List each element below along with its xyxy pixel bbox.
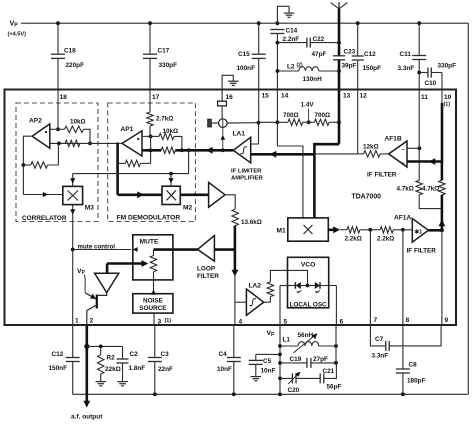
svg-text:AMPLIFIER: AMPLIFIER xyxy=(231,176,263,182)
junction IF line M2-branch xyxy=(187,148,191,152)
varicap diode right xyxy=(315,282,320,289)
junction rail-C14 xyxy=(276,21,280,25)
svg-text:mute control: mute control xyxy=(78,244,116,251)
capacitor C8 180pF at pin 8 xyxy=(396,368,410,370)
svg-text:220pF: 220pF xyxy=(66,62,85,69)
junction antenna-C22 xyxy=(337,41,341,45)
svg-text:4.7kΩ: 4.7kΩ xyxy=(397,186,414,193)
wire AP2 top input xyxy=(50,128,58,130)
svg-text:C3: C3 xyxy=(161,351,170,358)
wire 13.6k down to loop node (thick) xyxy=(234,226,237,250)
capacitor C23 39pF series antenna xyxy=(333,55,345,57)
wire pin 7 external xyxy=(370,325,385,346)
svg-text:C23: C23 xyxy=(344,49,356,56)
svg-text:16: 16 xyxy=(226,94,234,101)
amplifier LA2 VCO buffer xyxy=(246,289,263,315)
junction feedback crosses IF line xyxy=(149,148,153,152)
svg-text:(1): (1) xyxy=(165,318,172,324)
junction IF line 10k corner xyxy=(180,148,184,152)
resistor R2 22k xyxy=(100,346,102,354)
wire M3 output down to mute-control node xyxy=(72,205,74,250)
svg-text:AP1: AP1 xyxy=(121,126,134,133)
svg-text:2.2kΩ: 2.2kΩ xyxy=(377,236,394,243)
svg-text:15: 15 xyxy=(262,93,270,100)
svg-text:100nF: 100nF xyxy=(237,65,256,72)
svg-text:10nF: 10nF xyxy=(261,368,276,375)
resistor 10k AP2 feedback upper xyxy=(58,128,65,130)
resistor AP2 lower xyxy=(65,140,80,146)
capacitor C20 variable xyxy=(280,377,292,379)
svg-text:6: 6 xyxy=(340,319,344,326)
svg-text:C2: C2 xyxy=(130,351,139,358)
wire pin 2 af output (thick) xyxy=(86,325,89,403)
resistor 700 ohm left xyxy=(259,121,289,123)
wire R2/C2 branch xyxy=(87,345,123,347)
dashed box CORRELATOR xyxy=(16,103,98,222)
svg-text:1: 1 xyxy=(75,318,79,325)
wire mixer top feed M3-M2 xyxy=(73,150,189,173)
svg-text:13.6kΩ: 13.6kΩ xyxy=(241,219,262,226)
svg-text:C20: C20 xyxy=(288,387,300,394)
wire noise source to pin 3 xyxy=(153,313,155,325)
amplifier LA1 IF limiter xyxy=(233,137,250,163)
wire pin18 into AP2 node xyxy=(57,89,59,129)
wire current source into IF line xyxy=(222,127,224,150)
wire M2 left input (thick) xyxy=(118,194,162,197)
resistor 4.7k left xyxy=(416,180,422,195)
svg-text:C11: C11 xyxy=(400,51,412,58)
svg-text:FILTER: FILTER xyxy=(197,273,219,280)
current source circle xyxy=(219,119,228,128)
svg-text:1.8nF: 1.8nF xyxy=(129,365,146,372)
junction mute control at M3 line xyxy=(71,248,75,252)
svg-text:MUTE: MUTE xyxy=(140,239,159,246)
wire AP2 output to feedback node xyxy=(23,136,32,165)
inductor L2 130nH xyxy=(277,70,298,72)
svg-text:C4: C4 xyxy=(219,351,228,358)
svg-text:R2: R2 xyxy=(107,355,116,362)
svg-text:4.7kΩ: 4.7kΩ xyxy=(422,186,439,193)
junction current source-IF line xyxy=(221,148,225,152)
svg-text:3.3nF: 3.3nF xyxy=(372,353,389,360)
svg-text:C12: C12 xyxy=(364,51,376,58)
capacitor C3 22nF at pin 3 xyxy=(154,325,156,358)
resistor 12k xyxy=(357,153,363,155)
junction AP2 lower wire right xyxy=(88,142,92,146)
IC TDA7000 package outline xyxy=(5,90,457,326)
svg-text:150nF: 150nF xyxy=(49,365,68,372)
junction pin5-C20 xyxy=(278,377,282,381)
svg-text:8: 8 xyxy=(406,317,410,324)
wire pin 14 to M1 xyxy=(276,89,278,122)
resistor 2.2k first xyxy=(340,229,347,231)
block VCO / LOCAL OSC xyxy=(288,257,329,308)
capacitor C14 2.2nF at pin 14 xyxy=(270,29,284,31)
junction rail-C17 xyxy=(148,21,152,25)
svg-text:3: 3 xyxy=(158,319,162,326)
svg-text:12: 12 xyxy=(360,93,368,100)
varicap diode left xyxy=(280,285,295,287)
svg-text:(1): (1) xyxy=(444,102,451,108)
wire AP1 output down (thick) xyxy=(116,143,119,195)
svg-text:330pF: 330pF xyxy=(159,62,178,69)
junction antenna-L2 xyxy=(337,69,341,73)
resistor 2.7k from pin 17 xyxy=(149,89,151,112)
junction pin5-bus xyxy=(278,392,282,396)
svg-text:39pF: 39pF xyxy=(342,63,357,70)
wire pin 12 down xyxy=(357,89,359,154)
svg-text:22nF: 22nF xyxy=(158,366,173,373)
resistor in IF line xyxy=(161,147,175,153)
wire pin 10 line down to AF1B (thick) xyxy=(441,103,444,162)
junction AF1A output node xyxy=(440,228,444,232)
wire noise source to mute xyxy=(153,272,155,294)
wire AF1B input down to 4.7k (thick) xyxy=(441,162,444,181)
svg-text:FM DEMODULATOR: FM DEMODULATOR xyxy=(117,215,181,222)
svg-text:5: 5 xyxy=(284,319,288,326)
svg-text:3.3nF: 3.3nF xyxy=(398,65,415,72)
svg-text:2.2nF: 2.2nF xyxy=(283,36,300,43)
block NOISE SOURCE xyxy=(133,294,173,313)
wire Vp lead to emitter xyxy=(84,275,85,293)
capacitor C22 47pF antenna coupling xyxy=(277,42,307,44)
svg-text:1.4V: 1.4V xyxy=(301,102,315,109)
svg-text:2.2kΩ: 2.2kΩ xyxy=(345,236,362,243)
net Vp: bottom supply bus xyxy=(73,393,469,395)
junction rail-C18 xyxy=(56,21,60,25)
capacitor C4 10nF at pin 4 xyxy=(233,325,235,358)
svg-text:a.f. output: a.f. output xyxy=(71,414,103,421)
wire IF line LA1 input (thick) xyxy=(251,153,315,156)
capacitor C19 series 27pF xyxy=(280,362,307,364)
svg-text:2: 2 xyxy=(90,318,94,325)
svg-text:150pF: 150pF xyxy=(363,65,382,72)
wire IF node to 12k xyxy=(314,153,357,155)
wire AP1 top input xyxy=(142,135,151,137)
svg-text:VCO: VCO xyxy=(301,262,316,269)
junction C19-pin6 xyxy=(334,361,338,365)
wire pin 8 external xyxy=(402,325,404,369)
bar element left of current source xyxy=(208,119,211,127)
junction pin18-AP2 top input xyxy=(56,127,60,131)
svg-text:AF1B: AF1B xyxy=(385,136,402,143)
wire AP1 feedback vertical xyxy=(150,136,152,163)
capacitor C7 3.3nF pins 7-9 xyxy=(385,341,387,351)
wire driver output to mute (thick) xyxy=(106,264,109,274)
junction 700ohm-pin13 line xyxy=(337,120,341,124)
wire AP2 output down to M3 xyxy=(22,165,24,195)
wire 4.7k left bottom xyxy=(419,195,442,209)
wire pin1 mute-control line down xyxy=(72,250,74,326)
svg-text:L2: L2 xyxy=(287,64,295,71)
svg-text:✱1: ✱1 xyxy=(415,229,423,236)
svg-text:4: 4 xyxy=(239,319,243,326)
svg-text:IF LIMITER: IF LIMITER xyxy=(231,169,262,175)
svg-text:9: 9 xyxy=(445,317,449,324)
capacitor C2 1.8nF xyxy=(122,346,124,359)
svg-text:330pF: 330pF xyxy=(438,63,457,70)
net Vp: top supply rail xyxy=(21,22,468,24)
op-amp AF1B xyxy=(389,141,407,167)
wire pin 4 line xyxy=(234,274,236,325)
wire LA2 input xyxy=(235,301,247,303)
wire current source to pin15 node xyxy=(227,122,258,125)
mixer M2 xyxy=(162,186,180,204)
resistor VCO series xyxy=(267,282,273,297)
junction rail-C12 (150pF) xyxy=(356,21,360,25)
svg-text:CORRELATOR: CORRELATOR xyxy=(22,215,67,222)
svg-text:C22: C22 xyxy=(313,36,325,43)
wire to AF1A input xyxy=(403,229,412,231)
svg-text:700Ω: 700Ω xyxy=(315,112,331,119)
wire IF line to LA1 (thick) xyxy=(175,149,233,152)
wire pin 15 to LA1 top input xyxy=(258,89,260,122)
svg-text:IF FILTER: IF FILTER xyxy=(407,248,437,255)
wire amp output to 13.6k xyxy=(225,195,235,209)
ground symbol C2 xyxy=(122,380,124,382)
dashed box FM DEMODULATOR xyxy=(108,103,196,222)
resistor 700 ohm right xyxy=(314,119,329,125)
wire M2 output (thick) xyxy=(180,194,208,197)
junction pin2-R2 branch xyxy=(84,344,89,349)
svg-text:13: 13 xyxy=(343,93,351,100)
block MUTE xyxy=(133,235,173,280)
svg-text:C18: C18 xyxy=(64,48,76,55)
svg-text:180pF: 180pF xyxy=(407,378,426,385)
wire loop filter output to mute pot (thick) xyxy=(154,248,198,251)
svg-text:56pF: 56pF xyxy=(327,384,342,391)
svg-text:(+4.5V): (+4.5V) xyxy=(8,32,27,38)
svg-text:TDA7000: TDA7000 xyxy=(352,194,382,201)
junction M2 top input xyxy=(169,172,173,176)
svg-text:12kΩ: 12kΩ xyxy=(363,144,379,151)
svg-text:L1: L1 xyxy=(283,337,291,344)
capacitor C10 330pF at pin 10 xyxy=(419,72,428,74)
ground symbol R2 xyxy=(100,374,102,380)
capacitor C11 3.3nF at pin 11 xyxy=(418,23,420,55)
mixer M3 xyxy=(63,186,83,204)
amplifier after M2 xyxy=(209,182,226,207)
wire loop node to loop filter (thick) xyxy=(214,248,235,251)
svg-text:47pF: 47pF xyxy=(312,51,327,58)
wire M3 top input xyxy=(72,174,74,187)
junction pin 7 node xyxy=(369,228,373,232)
junction AP2 bottom input xyxy=(57,142,61,146)
capacitor C17 330pF at pin 17 xyxy=(149,23,151,54)
svg-text:C10: C10 xyxy=(425,80,437,87)
svg-text:IF FILTER: IF FILTER xyxy=(367,172,397,179)
op-amp AP1 xyxy=(122,131,142,156)
capacitor C12 150pF at pin 12 xyxy=(357,23,359,56)
ground symbol at pin 16 xyxy=(222,75,233,89)
junction 1.4V tap xyxy=(307,120,311,124)
svg-text:700Ω: 700Ω xyxy=(283,112,299,119)
junction pin5-C19 xyxy=(278,361,282,365)
wire 4.7k right to AF1A output (thick) xyxy=(441,195,444,231)
svg-text:10kΩ: 10kΩ xyxy=(163,128,179,135)
junction C11-C10 xyxy=(417,71,421,75)
transistor Q1 mute switch xyxy=(96,295,98,309)
wire varicap left to pin 5 xyxy=(279,286,281,326)
svg-text:M3: M3 xyxy=(85,205,94,212)
amplifier mute driver triangle xyxy=(95,273,119,292)
mute potentiometer xyxy=(153,250,155,256)
wire pin 9 inside xyxy=(441,230,443,325)
svg-text:C17: C17 xyxy=(158,48,170,55)
junction C4-bus xyxy=(232,392,236,396)
junction pin5-L1 xyxy=(278,344,282,348)
svg-text:AF1A: AF1A xyxy=(394,215,411,222)
svg-text:14: 14 xyxy=(281,93,289,100)
svg-text:LOCAL OSC: LOCAL OSC xyxy=(290,301,327,308)
svg-text:(2): (2) xyxy=(297,63,303,69)
junction C3-bus xyxy=(153,392,157,396)
wire AP2 bottom input run to AP1 output node xyxy=(50,142,118,144)
wire mute control xyxy=(73,249,132,251)
junction C14-C22 xyxy=(276,41,280,45)
junction rail-C15 xyxy=(257,21,261,25)
resistor 13.6k xyxy=(232,209,238,226)
amplifier LOOP FILTER xyxy=(198,236,215,262)
resistor AP1 output feedback xyxy=(125,160,140,166)
svg-text:VP: VP xyxy=(267,330,276,338)
mixer M1 xyxy=(288,218,329,241)
junction AF1B-pin11 xyxy=(418,146,422,150)
op-amp AF1A xyxy=(412,219,428,243)
wire M2 top input arrow xyxy=(170,174,172,187)
svg-text:17: 17 xyxy=(152,94,160,101)
capacitor C15 100nF at pin 15 xyxy=(258,23,260,54)
junction AP1 top input node xyxy=(149,135,153,139)
resistor block at pin 16 xyxy=(221,89,223,101)
svg-text:+: + xyxy=(402,162,405,168)
wire pin 6 line xyxy=(335,325,337,363)
resistor AP2 output feedback xyxy=(23,164,30,166)
svg-text:C5: C5 xyxy=(263,358,272,365)
svg-text:SOURCE: SOURCE xyxy=(139,305,167,312)
svg-text:10kΩ: 10kΩ xyxy=(70,119,86,126)
wire pin 7 inside xyxy=(369,230,371,325)
svg-text:11: 11 xyxy=(421,94,428,101)
svg-text:LA1: LA1 xyxy=(233,131,246,138)
wire pin 8 inside xyxy=(402,230,404,325)
junction R2 xyxy=(99,345,103,349)
svg-text:C14: C14 xyxy=(286,28,298,35)
svg-text:C19: C19 xyxy=(290,356,302,363)
antenna xyxy=(338,2,340,9)
wire M1 output (thick) xyxy=(328,229,335,232)
svg-text:LA2: LA2 xyxy=(249,283,262,290)
wire IF line AP1 bottom input (thick) xyxy=(142,149,161,152)
svg-text:C21: C21 xyxy=(323,368,335,375)
svg-text:130nH: 130nH xyxy=(303,76,323,83)
junction pin 8 node xyxy=(401,228,405,232)
svg-text:M2: M2 xyxy=(183,205,192,212)
svg-text:18: 18 xyxy=(60,94,68,101)
resistor 10k AP1 upper xyxy=(151,135,159,137)
svg-text:C8: C8 xyxy=(409,362,418,369)
svg-text:56nH: 56nH xyxy=(298,332,314,339)
capacitor C12 150nF at pin 1 xyxy=(72,325,74,358)
wire loop node down to pin 4 (thick) xyxy=(234,250,237,274)
svg-text:7: 7 xyxy=(374,317,378,324)
junction C14-L2 xyxy=(276,69,280,73)
svg-text:22kΩ: 22kΩ xyxy=(105,366,121,373)
wire varicap right to pin 6 xyxy=(335,286,337,326)
resistor 2.2k second xyxy=(370,229,380,231)
wire AF1B bottom input (thick) xyxy=(407,160,442,163)
wire pin 11 down xyxy=(418,89,420,180)
svg-text:10nF: 10nF xyxy=(217,366,232,373)
ground symbol above C14 xyxy=(277,6,289,23)
svg-text:27pF: 27pF xyxy=(313,356,328,363)
wire M3 left input xyxy=(23,194,62,196)
wire RF line elbow to mixer M1 (thick) xyxy=(314,144,339,218)
junction AP2 output node xyxy=(22,163,26,167)
op-amp AP2 xyxy=(32,124,50,148)
junction L1-pin6 xyxy=(334,344,338,348)
capacitor C5 10nF decoupling xyxy=(256,353,280,355)
wire AF1B top input to pin 11 xyxy=(407,147,419,149)
wire pin 5 Vp line xyxy=(279,325,281,394)
svg-text:NOISE: NOISE xyxy=(143,297,164,304)
svg-text:C7: C7 xyxy=(375,336,384,343)
junction varicap centre xyxy=(306,284,310,288)
svg-text:LOOP: LOOP xyxy=(197,266,216,273)
junction C8-bus xyxy=(401,392,405,396)
svg-text:M1: M1 xyxy=(277,228,286,235)
svg-text:AP2: AP2 xyxy=(29,118,42,125)
svg-text:10: 10 xyxy=(444,94,452,101)
wire AF1A output (thick) xyxy=(429,229,442,232)
inductor L1 56nH variable xyxy=(280,345,298,347)
svg-text:C12: C12 xyxy=(52,351,64,358)
capacitor C21 56pF xyxy=(319,373,321,383)
wire LA2 output to varicap node xyxy=(264,297,271,303)
resistor 4.7k right xyxy=(439,180,445,195)
svg-text:−: − xyxy=(402,148,405,154)
wire pin13 RF line xyxy=(338,60,341,144)
svg-text:2.7kΩ: 2.7kΩ xyxy=(156,116,173,123)
svg-text:C15: C15 xyxy=(238,51,250,58)
capacitor C18 220pF at pin 18 xyxy=(57,23,59,54)
junction rail-C11 xyxy=(417,21,421,25)
wire AP1 output node xyxy=(118,142,122,144)
wire: right-edge supply run xyxy=(467,23,469,394)
